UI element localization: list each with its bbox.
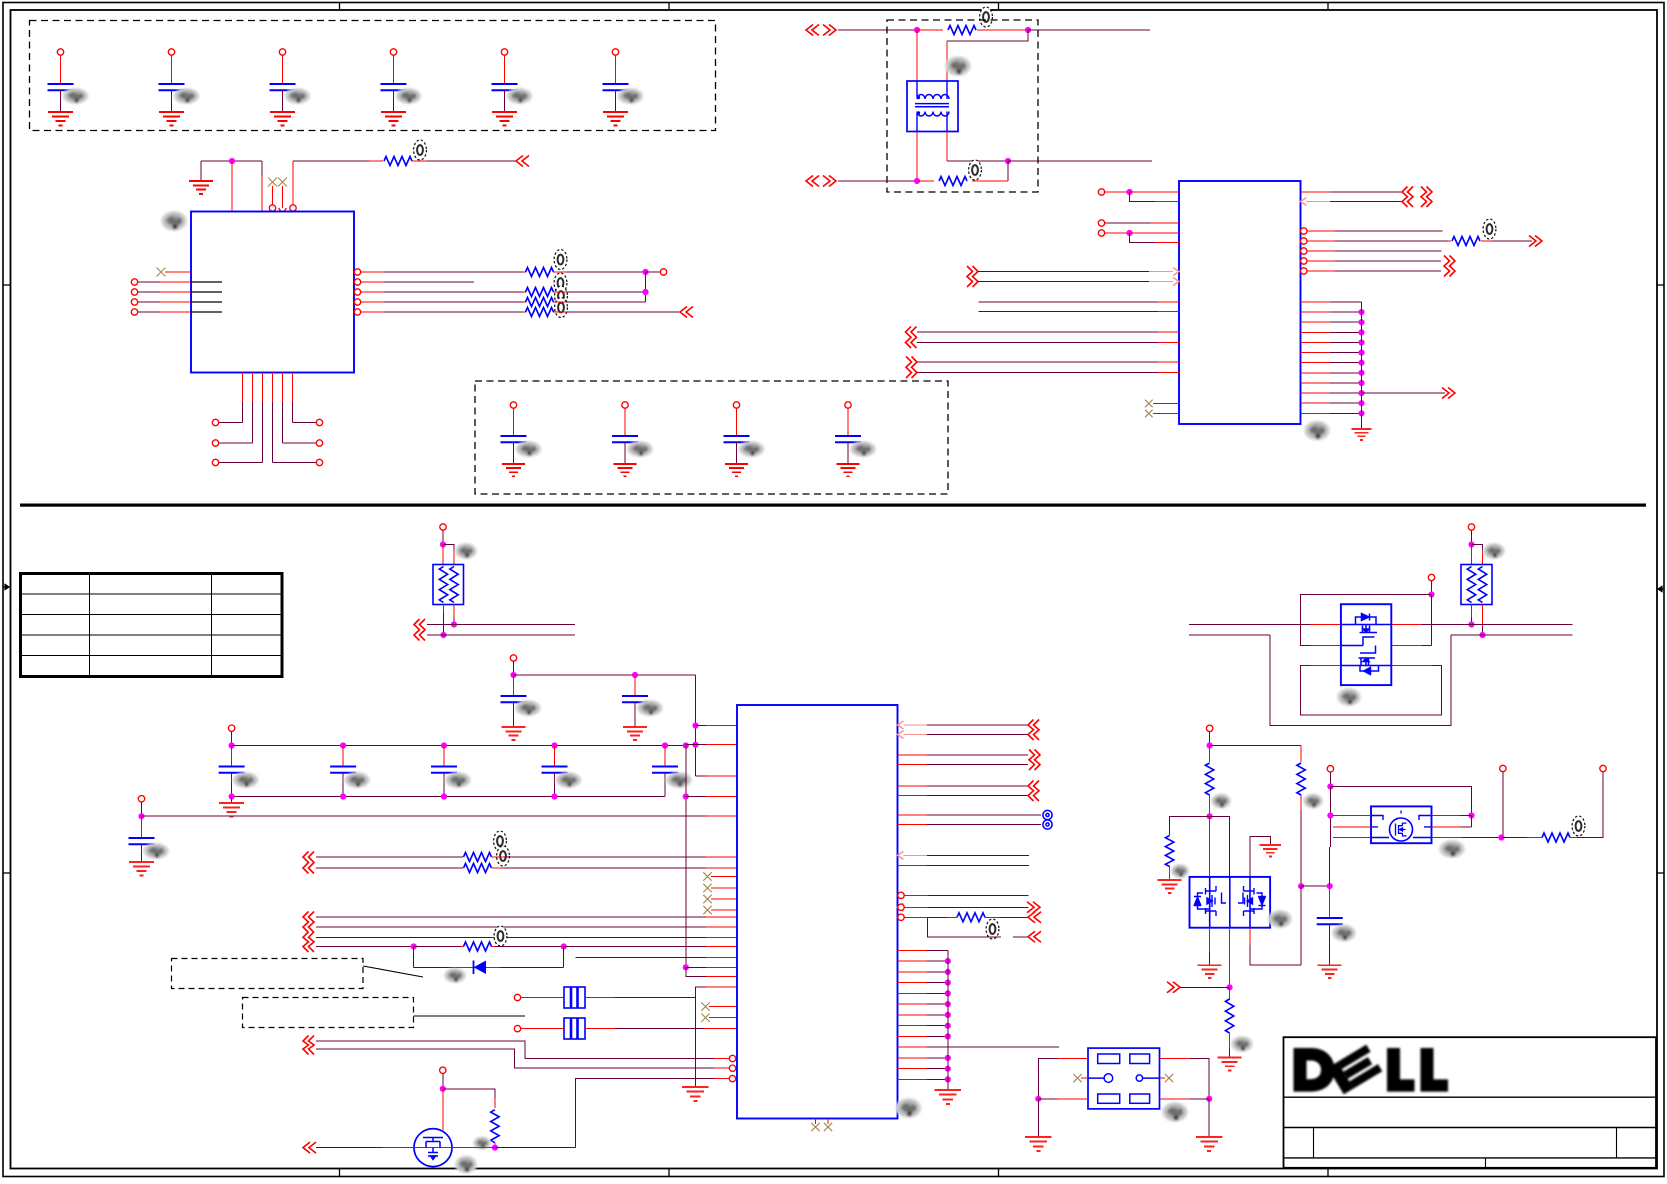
resistor R4 bbox=[526, 298, 554, 307]
dashed note box 1 bbox=[172, 959, 364, 989]
wire vertical C with ground bbox=[682, 987, 708, 1101]
wire rail C with branches bbox=[1170, 816, 1230, 877]
no-connect pins U1 top bbox=[268, 178, 287, 214]
wire vertical B to U3 bbox=[683, 746, 737, 977]
value labels R9 R10 bbox=[494, 831, 510, 866]
capacitor C2 bbox=[159, 49, 200, 126]
capacitor C10 bbox=[835, 402, 876, 477]
wire rail A (upper) bbox=[1189, 624, 1573, 626]
capacitor C20 (bar style) bbox=[514, 1018, 737, 1039]
wire C11 rail bbox=[514, 672, 696, 678]
U2 left offpage wires C bbox=[906, 327, 1180, 379]
capacitor C21 bbox=[1317, 886, 1356, 978]
wire rail B outer loop bbox=[1270, 635, 1451, 726]
offpage connector top-left of T1 bbox=[806, 25, 836, 36]
note pointer line bbox=[363, 966, 423, 977]
capacitor C9 bbox=[724, 402, 765, 477]
resistor R10 bbox=[464, 864, 492, 873]
offpage wire to R17 bbox=[1167, 982, 1230, 993]
wire R7 to corner bbox=[972, 180, 1008, 182]
op IC U1 bbox=[161, 211, 354, 373]
U3 right bus rows bbox=[898, 950, 1059, 1104]
offpage wire row 1041 bbox=[303, 1036, 736, 1062]
capacitor C1 bbox=[48, 49, 89, 126]
offpage connector bottom-left of T1 bbox=[806, 176, 836, 187]
wires U5 verticals bbox=[1198, 816, 1301, 990]
U3 right test points bbox=[898, 810, 1053, 829]
dashed group box 3 (filter) bbox=[887, 20, 1038, 192]
capacitor C14 bbox=[330, 746, 370, 797]
wires Q3 pins bbox=[1333, 816, 1501, 838]
common-mode choke T1 bbox=[907, 56, 971, 132]
wire vertical A to U3 bbox=[692, 675, 737, 776]
resistor R15 bbox=[1297, 763, 1323, 809]
U3 right offpage rows B bbox=[898, 750, 1041, 771]
wire Q1 gate pullup bbox=[440, 1067, 495, 1130]
U2 right pins row1-2 to offpage bbox=[1301, 187, 1433, 208]
U1 right pin wires bbox=[354, 269, 526, 315]
U2 right circle pins bbox=[1301, 228, 1455, 277]
resistor R7 bbox=[939, 177, 967, 186]
U3 right stub rows bbox=[898, 851, 1029, 865]
wire R18 row bbox=[1498, 765, 1542, 840]
wire U1 top rail bbox=[201, 158, 262, 211]
thick horizontal separator line bbox=[20, 504, 1646, 507]
U3 right row 917 resistor R13 bbox=[898, 912, 1041, 943]
wire row 1078 from Q1 bbox=[576, 1075, 736, 1147]
U3 right row 907 offpage bbox=[898, 902, 1041, 913]
wire R18 right bbox=[1570, 765, 1606, 837]
wire RP2 top bbox=[1468, 524, 1482, 565]
wires right of U1 resistors bbox=[553, 269, 693, 318]
resistor R14 bbox=[1205, 763, 1231, 809]
offpage wire Q1 drain bbox=[303, 1142, 414, 1153]
resistor R9 bbox=[464, 853, 492, 862]
ground stub mid bbox=[1250, 836, 1281, 877]
wire RP1 top bbox=[440, 524, 454, 565]
resistor R18 bbox=[1542, 816, 1585, 842]
wire R14 top bbox=[1206, 725, 1301, 762]
title block bbox=[1284, 1037, 1657, 1168]
designator blob U3 bbox=[896, 1098, 922, 1118]
resistor R16 bbox=[1158, 836, 1189, 893]
wire R14 bottom to rail bbox=[1207, 795, 1213, 819]
U3 right offpage rows A bbox=[898, 720, 1040, 741]
value label R6 bbox=[980, 7, 993, 27]
offpage wires below RP1 bbox=[414, 619, 575, 641]
controller IC U3 bbox=[737, 705, 898, 1119]
wire R15 bottom bbox=[1298, 795, 1304, 889]
Dell logo bbox=[1294, 1045, 1449, 1095]
designator blob U2 bbox=[1304, 421, 1330, 441]
U2 left pin group 1 bbox=[1098, 189, 1179, 243]
resistor R11 with parallel diode D1 bbox=[411, 926, 737, 983]
value labels U1 resistors bbox=[554, 250, 567, 318]
J1 right wires with grounds bbox=[1160, 1059, 1223, 1152]
dashed group box 2 (decoupling caps) bbox=[475, 381, 948, 494]
U3 bottom no-connects bbox=[811, 1119, 832, 1132]
resistor R8 bbox=[1448, 219, 1542, 247]
resistor pack RP2 bbox=[1461, 543, 1505, 605]
capacitor C18 bbox=[129, 796, 170, 876]
ground (U1 top) bbox=[189, 161, 213, 194]
wires R9 R10 to U3 bbox=[492, 857, 737, 868]
capacitor C4 bbox=[381, 49, 422, 126]
capacitor C6 bbox=[603, 49, 644, 126]
note pointer line 2 bbox=[414, 1015, 526, 1017]
revision table bbox=[21, 574, 283, 677]
wire cap C21 rail bbox=[1301, 847, 1333, 889]
wire R1 to offpage bbox=[412, 156, 529, 167]
U2 left offpage wires A bbox=[967, 266, 1179, 287]
wire U4 gate loop bbox=[1301, 574, 1435, 645]
resistor R3 bbox=[526, 288, 554, 297]
wire rail B (lower) bbox=[1189, 634, 1573, 636]
resistor R5 bbox=[526, 308, 554, 317]
resistor R12 bbox=[491, 1110, 499, 1151]
wire U1 top to resistor R1 bbox=[290, 161, 383, 211]
ground U2 bus bbox=[1351, 429, 1371, 440]
transistor Q1 bbox=[414, 1129, 491, 1174]
resistor R17 bbox=[1218, 987, 1253, 1070]
offpage wire row 1049 bbox=[316, 1049, 736, 1071]
wire U2 bus to offpage bbox=[1362, 388, 1456, 399]
U2 left wires B bbox=[979, 302, 1180, 312]
border mid arrows bbox=[3, 584, 9, 589]
wire Q3 gate bbox=[1327, 766, 1474, 847]
wire U4 source loop bbox=[1301, 666, 1442, 715]
wire T1 bottom legs bbox=[917, 132, 1152, 182]
wire cap rail top bbox=[228, 725, 737, 749]
resistor R2 bbox=[526, 268, 554, 277]
capacitor C11 bbox=[501, 655, 542, 740]
capacitor C13 bbox=[219, 746, 259, 797]
capacitor C17 bbox=[652, 746, 692, 797]
capacitor C15 bbox=[431, 746, 471, 797]
dashed group box 1 (bypass caps) bbox=[30, 21, 716, 131]
ethernet IC U2 bbox=[1179, 181, 1301, 424]
transistor module U5 bbox=[1190, 877, 1293, 928]
J1 left wires with grounds bbox=[1025, 1059, 1088, 1152]
capacitor C12 bbox=[622, 675, 663, 740]
U3 right offpage rows C bbox=[898, 781, 1040, 802]
wire into T1 top bbox=[838, 27, 943, 33]
wires RP2 bottom bbox=[1468, 605, 1485, 639]
U2 left no-connect pins bbox=[1145, 400, 1179, 418]
wire T1 top right bbox=[917, 27, 1150, 81]
capacitor C5 bbox=[492, 49, 533, 126]
offpage bus wires into U3 bbox=[303, 912, 737, 953]
dashed note box 2 bbox=[243, 998, 414, 1028]
U3 left no-connects B bbox=[701, 1002, 737, 1022]
capacitor C8 bbox=[612, 402, 653, 477]
wire C18 rail to U3 bbox=[142, 815, 738, 817]
wire Q1 drain to U3 bbox=[452, 1147, 576, 1149]
transistor Q3 bbox=[1371, 806, 1465, 858]
value label R7 bbox=[969, 160, 982, 180]
U3 right row 895 dead end bbox=[898, 892, 1029, 898]
wire cap rail bottom bbox=[219, 793, 665, 816]
U3 left no-connects A bbox=[703, 872, 737, 914]
wire U3 pin row 957 bbox=[575, 956, 737, 958]
capacitor C7 bbox=[501, 402, 542, 477]
U1 bottom pin wires bbox=[212, 373, 322, 466]
jumper block J1 bbox=[1088, 1048, 1188, 1122]
resistor R1 bbox=[384, 140, 426, 166]
capacitor C3 bbox=[270, 49, 311, 126]
wire into T1 bottom bbox=[838, 178, 934, 184]
capacitor C19 (bar style) bbox=[514, 987, 737, 1008]
capacitor C16 bbox=[542, 746, 582, 797]
resistor pack RP1 bbox=[433, 543, 477, 605]
dual FET module U4 bbox=[1337, 604, 1391, 706]
U1 left pins bbox=[131, 268, 222, 316]
wires RP1 bottom bbox=[440, 605, 457, 639]
resistor R6 bbox=[948, 26, 976, 35]
U2 right bus wires bbox=[1301, 302, 1365, 429]
offpage wires RR rows bbox=[303, 852, 463, 874]
J1 no-connects bbox=[1073, 1074, 1173, 1082]
